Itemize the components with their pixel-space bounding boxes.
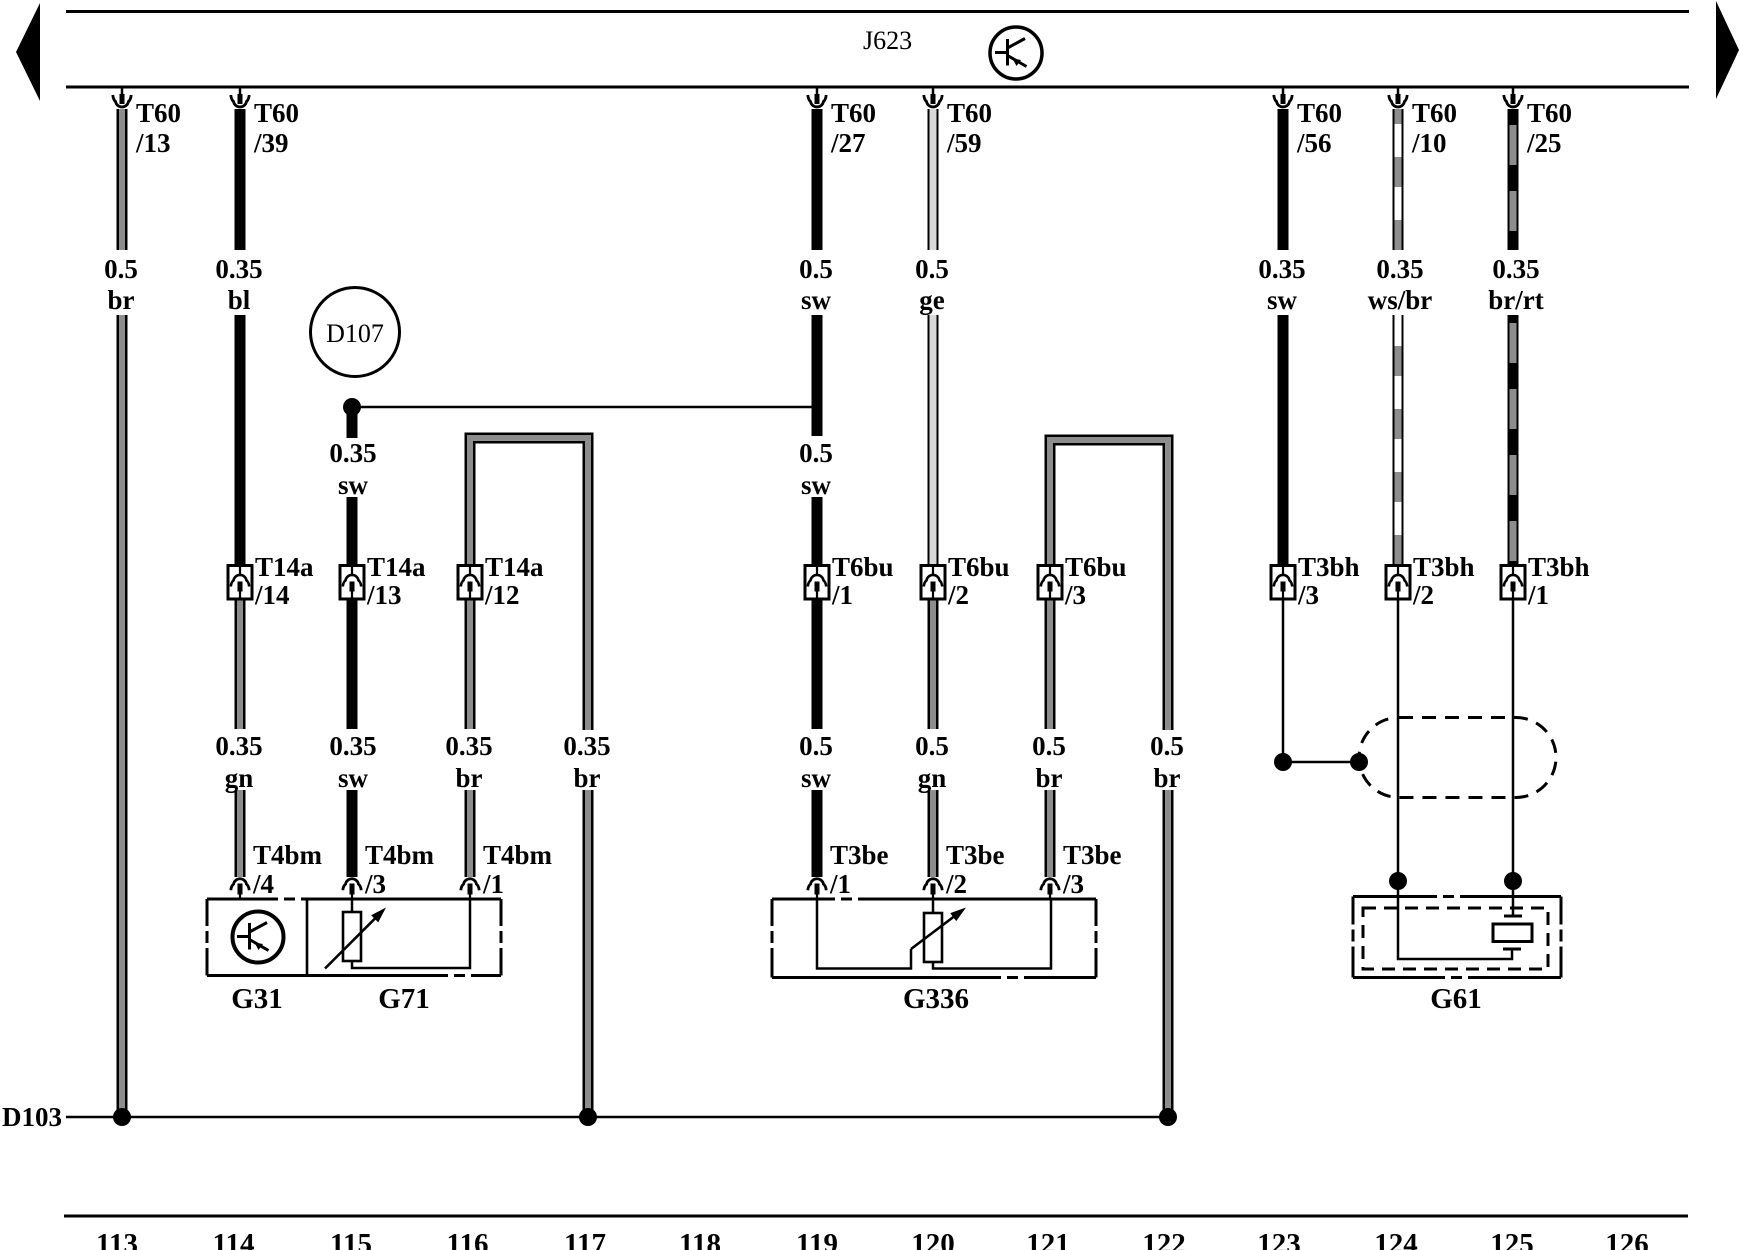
svg-text:sw: sw xyxy=(338,470,369,500)
label T4bm/3 xyxy=(364,840,435,899)
svg-text:0.35: 0.35 xyxy=(215,254,262,284)
svg-text:/3: /3 xyxy=(1297,580,1319,610)
label T3be/3 xyxy=(1062,840,1122,899)
svg-text:T60: T60 xyxy=(831,98,876,128)
junction node G61 right xyxy=(1504,872,1522,890)
wire 114 bl upper xyxy=(235,109,246,250)
label T60/10 xyxy=(1411,98,1457,158)
continuation arrow left xyxy=(16,3,40,101)
label T3bh/2 xyxy=(1412,552,1475,610)
control unit symbol in J623 xyxy=(990,27,1042,79)
svg-text:/14: /14 xyxy=(254,580,290,610)
svg-text:T6bu: T6bu xyxy=(832,552,894,582)
label T3bh/3 xyxy=(1297,552,1360,610)
svg-text:/13: /13 xyxy=(135,128,171,158)
label 0.35 sw (115) lower xyxy=(329,731,376,793)
svg-text:0.5: 0.5 xyxy=(1150,731,1184,761)
wire 116 br lower2 xyxy=(465,790,476,877)
wire 114 gn lower xyxy=(235,790,246,877)
svg-text:/12: /12 xyxy=(484,580,520,610)
wire 113 br upper xyxy=(117,109,128,250)
svg-text:114: 114 xyxy=(213,1228,255,1250)
wire 119 sw seg4 xyxy=(812,599,823,729)
label T4bm/4 xyxy=(252,840,323,899)
svg-text:123: 123 xyxy=(1257,1228,1301,1250)
bus J623 bottom line xyxy=(66,86,1689,89)
wire shield link horizontal xyxy=(1283,761,1359,764)
housing box G31/G71 sender housing xyxy=(207,899,501,976)
junction node G61 left xyxy=(1389,872,1407,890)
reference circle D107 xyxy=(311,288,400,377)
svg-text:0.35: 0.35 xyxy=(215,731,262,761)
svg-text:/39: /39 xyxy=(253,128,289,158)
continuation arrow right xyxy=(1716,1,1739,99)
wire 120 gn lower xyxy=(928,790,939,877)
label 0.35 sw (115) xyxy=(329,438,376,500)
svg-text:G336: G336 xyxy=(903,983,969,1015)
component pin connector T4bm/3 xyxy=(343,879,361,900)
svg-text:/10: /10 xyxy=(1411,128,1447,158)
svg-text:121: 121 xyxy=(1026,1228,1070,1250)
wire loop 116-117 br tube xyxy=(470,438,588,730)
label T60/25 xyxy=(1526,98,1572,158)
svg-text:0.35: 0.35 xyxy=(329,731,376,761)
inline connector T14a/12 xyxy=(458,566,482,600)
inline connector T14a/14 xyxy=(228,566,252,600)
bus tap connector T60/39 xyxy=(231,87,249,107)
wire 125 lead through shield xyxy=(1512,599,1515,881)
svg-text:/3: /3 xyxy=(364,869,386,899)
wire 113 br lower xyxy=(117,315,128,1117)
svg-text:G71: G71 xyxy=(378,983,430,1015)
wire 114 bl mid xyxy=(235,315,246,565)
svg-text:br: br xyxy=(574,763,601,793)
svg-text:/1: /1 xyxy=(482,869,504,899)
wire 119 sw seg5 xyxy=(812,790,823,877)
svg-text:br: br xyxy=(456,763,483,793)
component pin connector T3be/1 xyxy=(808,879,826,900)
svg-text:0.5: 0.5 xyxy=(915,731,949,761)
wire 120 gn upper xyxy=(928,599,939,729)
wire 125 br/rt mid xyxy=(1508,315,1519,565)
wire 124 ws/br mid xyxy=(1393,315,1404,565)
svg-text:gn: gn xyxy=(918,763,947,793)
svg-text:T3bh: T3bh xyxy=(1413,552,1475,582)
bus tap connector T60/25 xyxy=(1504,87,1522,107)
svg-text:117: 117 xyxy=(564,1228,606,1250)
wire 121 br lower1 xyxy=(1045,599,1056,729)
bus J623 top line xyxy=(66,10,1689,13)
wire 115 sw lower1 xyxy=(347,599,358,729)
svg-text:D107: D107 xyxy=(326,319,384,348)
svg-text:/1: /1 xyxy=(831,580,853,610)
label T14a/13 xyxy=(366,552,426,610)
svg-text:0.35: 0.35 xyxy=(445,731,492,761)
wire loop 121-122 br tube xyxy=(1050,440,1168,730)
svg-text:T6bu: T6bu xyxy=(1065,552,1127,582)
label T3bh/1 xyxy=(1527,552,1590,610)
svg-text:120: 120 xyxy=(911,1228,955,1250)
svg-text:T4bm: T4bm xyxy=(253,840,323,870)
svg-text:T60: T60 xyxy=(947,98,992,128)
wire 122 br lower xyxy=(1163,790,1174,1117)
svg-text:G31: G31 xyxy=(231,983,283,1015)
variable resistor G71 xyxy=(325,908,386,969)
svg-text:0.35: 0.35 xyxy=(563,731,610,761)
svg-text:T3bh: T3bh xyxy=(1298,552,1360,582)
label 0.5 sw (119) lower xyxy=(799,731,833,793)
G71 internal wiring xyxy=(352,899,470,968)
label 0.35 br/rt (125) xyxy=(1488,254,1543,315)
svg-text:/2: /2 xyxy=(945,869,967,899)
svg-text:br: br xyxy=(108,285,135,315)
inline connector T3bh/3 xyxy=(1271,566,1295,600)
wire 124 lead through shield xyxy=(1397,599,1400,881)
svg-text:br: br xyxy=(1154,763,1181,793)
inline connector T6bu/1 xyxy=(805,566,829,600)
svg-text:118: 118 xyxy=(679,1228,721,1250)
wire 115 sw lower2 xyxy=(347,790,358,877)
svg-text:T4bm: T4bm xyxy=(365,840,435,870)
svg-text:T14a: T14a xyxy=(255,552,314,582)
svg-text:G61: G61 xyxy=(1430,983,1482,1015)
component pin connector T4bm/1 xyxy=(461,879,479,900)
svg-text:/25: /25 xyxy=(1526,128,1562,158)
wire 123 lead to shield node xyxy=(1282,599,1285,762)
component pin connector T3be/3 xyxy=(1041,879,1059,900)
bus tap connector T60/10 xyxy=(1389,87,1407,107)
svg-text:/27: /27 xyxy=(830,128,866,158)
label 0.35 gn (114) xyxy=(215,731,262,793)
variable resistor G336 xyxy=(911,908,966,963)
G61 internal wiring right xyxy=(1512,881,1515,916)
svg-text:/3: /3 xyxy=(1064,580,1086,610)
svg-text:0.5: 0.5 xyxy=(915,254,949,284)
wire 119 sw seg2 xyxy=(812,315,823,436)
svg-text:0.35: 0.35 xyxy=(1258,254,1305,284)
label 0.35 bl (114) xyxy=(215,254,262,315)
svg-text:/2: /2 xyxy=(1412,580,1434,610)
svg-text:T60: T60 xyxy=(136,98,181,128)
svg-text:T14a: T14a xyxy=(367,552,426,582)
G61 sensor element xyxy=(1493,916,1532,949)
label T14a/12 xyxy=(484,552,544,610)
svg-text:124: 124 xyxy=(1374,1228,1418,1250)
svg-text:116: 116 xyxy=(447,1228,489,1250)
wire 120 ge upper xyxy=(928,109,939,250)
svg-text:sw: sw xyxy=(1267,285,1298,315)
svg-text:ws/br: ws/br xyxy=(1368,285,1433,315)
node wire from D107 junction to track 119 xyxy=(352,406,812,409)
svg-text:/1: /1 xyxy=(829,869,851,899)
svg-text:sw: sw xyxy=(338,763,369,793)
housing box G61 outer housing xyxy=(1353,897,1561,978)
screened cable shield symbol xyxy=(1359,718,1556,798)
wire 124 ws/br upper xyxy=(1393,109,1404,250)
svg-text:gn: gn xyxy=(225,763,254,793)
wire 115 sw mid xyxy=(347,497,358,565)
svg-text:T60: T60 xyxy=(254,98,299,128)
label 0.35 sw (123) xyxy=(1258,254,1305,315)
svg-text:126: 126 xyxy=(1605,1228,1649,1250)
label 0.35 br (116) xyxy=(445,731,492,793)
label 0.5 gn (120) xyxy=(915,731,949,793)
svg-text:T60: T60 xyxy=(1412,98,1457,128)
label T60/39 xyxy=(253,98,299,158)
svg-text:/56: /56 xyxy=(1296,128,1332,158)
svg-text:bl: bl xyxy=(228,285,251,315)
svg-text:0.35: 0.35 xyxy=(329,438,376,468)
svg-text:sw: sw xyxy=(801,285,832,315)
wire 119 sw seg3 xyxy=(812,497,823,565)
svg-text:T3be: T3be xyxy=(830,840,889,870)
junction node D107 tap xyxy=(343,398,361,416)
svg-text:0.5: 0.5 xyxy=(799,254,833,284)
divider G31|G71 xyxy=(306,899,309,976)
svg-text:T3be: T3be xyxy=(1063,840,1122,870)
svg-text:/4: /4 xyxy=(252,869,274,899)
bus tap connector T60/13 xyxy=(113,87,131,107)
svg-text:br/rt: br/rt xyxy=(1488,285,1543,315)
svg-text:/59: /59 xyxy=(946,128,982,158)
label 0.35 br (117) xyxy=(563,731,610,793)
junction node shield B xyxy=(1350,753,1368,771)
wire 120 ge mid xyxy=(928,315,939,565)
svg-text:T60: T60 xyxy=(1297,98,1342,128)
label 0.5 ge (120) xyxy=(915,254,949,315)
svg-text:115: 115 xyxy=(330,1228,372,1250)
svg-text:119: 119 xyxy=(796,1228,838,1250)
bus tap connector T60/56 xyxy=(1274,87,1292,107)
svg-text:122: 122 xyxy=(1142,1228,1186,1250)
svg-text:T14a: T14a xyxy=(485,552,544,582)
junction node shield A xyxy=(1274,753,1292,771)
svg-text:D103: D103 xyxy=(2,1102,62,1132)
svg-text:J623: J623 xyxy=(863,26,912,55)
svg-text:T60: T60 xyxy=(1527,98,1572,128)
svg-text:/1: /1 xyxy=(1527,580,1549,610)
svg-text:sw: sw xyxy=(801,470,832,500)
housing box G336 sender housing xyxy=(772,899,1096,978)
svg-text:sw: sw xyxy=(801,763,832,793)
gauge symbol G31 xyxy=(233,912,284,963)
label T3be/1 xyxy=(829,840,889,899)
label T14a/14 xyxy=(254,552,314,610)
svg-text:/3: /3 xyxy=(1062,869,1084,899)
wire 115 sw upper xyxy=(347,407,358,438)
svg-text:T6bu: T6bu xyxy=(948,552,1010,582)
label T60/27 xyxy=(830,98,876,158)
inline connector T3bh/2 xyxy=(1386,566,1410,600)
label 0.5 sw (119) xyxy=(799,254,833,315)
label 0.5 sw (119) mid xyxy=(799,438,833,500)
svg-text:0.35: 0.35 xyxy=(1376,254,1423,284)
inline connector T3bh/1 xyxy=(1501,566,1525,600)
wire 119 sw seg1 xyxy=(812,109,823,250)
label 0.5 br (113) xyxy=(104,254,138,315)
junction node D103-113 xyxy=(113,1108,131,1126)
svg-text:125: 125 xyxy=(1490,1228,1534,1250)
G61 internal wiring left xyxy=(1398,881,1512,959)
svg-text:ge: ge xyxy=(919,285,945,315)
label T6bu/3 xyxy=(1064,552,1127,610)
label 0.35 ws/br (124) xyxy=(1368,254,1433,315)
svg-text:T3bh: T3bh xyxy=(1528,552,1590,582)
wire 121 br lower2 xyxy=(1045,790,1056,877)
bus tap connector T60/59 xyxy=(924,87,942,107)
bottom track rail xyxy=(64,1215,1688,1218)
wire 114 gn upper xyxy=(235,599,246,729)
G336 internal wiring xyxy=(817,899,911,969)
component pin connector T3be/2 xyxy=(924,879,942,900)
inline connector T6bu/3 xyxy=(1038,566,1062,600)
wire 116 br lower1 xyxy=(465,599,476,729)
svg-text:0.5: 0.5 xyxy=(104,254,138,284)
label T6bu/1 xyxy=(831,552,894,610)
G61 inner shield box xyxy=(1363,908,1548,969)
label T4bm/1 xyxy=(482,840,553,899)
svg-text:0.5: 0.5 xyxy=(1032,731,1066,761)
svg-text:T3be: T3be xyxy=(946,840,1005,870)
label 0.5 br (122) xyxy=(1150,731,1184,793)
track numbers xyxy=(96,1228,1649,1250)
component pin connector T4bm/4 xyxy=(231,879,249,900)
svg-text:113: 113 xyxy=(96,1228,138,1250)
label T3be/2 xyxy=(945,840,1005,899)
svg-text:0.5: 0.5 xyxy=(799,438,833,468)
junction node D103-117 xyxy=(579,1108,597,1126)
svg-text:br: br xyxy=(1036,763,1063,793)
inline connector T14a/13 xyxy=(340,566,364,600)
svg-text:0.35: 0.35 xyxy=(1492,254,1539,284)
bus tap connector T60/27 xyxy=(808,87,826,107)
label T6bu/2 xyxy=(947,552,1010,610)
label T60/56 xyxy=(1296,98,1342,158)
wire 125 br/rt upper xyxy=(1508,109,1519,250)
inline connector T6bu/2 xyxy=(921,566,945,600)
svg-text:/13: /13 xyxy=(366,580,402,610)
label T60/59 xyxy=(946,98,992,158)
svg-text:T4bm: T4bm xyxy=(483,840,553,870)
wire 123 sw upper xyxy=(1278,109,1289,250)
svg-text:/2: /2 xyxy=(947,580,969,610)
wire 123 sw mid xyxy=(1278,315,1289,565)
wire 117 br lower xyxy=(583,790,594,1117)
label 0.5 br (121) xyxy=(1032,731,1066,793)
svg-text:0.5: 0.5 xyxy=(799,731,833,761)
label T60/13 xyxy=(135,98,181,158)
junction node D103-122 xyxy=(1159,1108,1177,1126)
ground wire D103 xyxy=(66,1116,1168,1119)
